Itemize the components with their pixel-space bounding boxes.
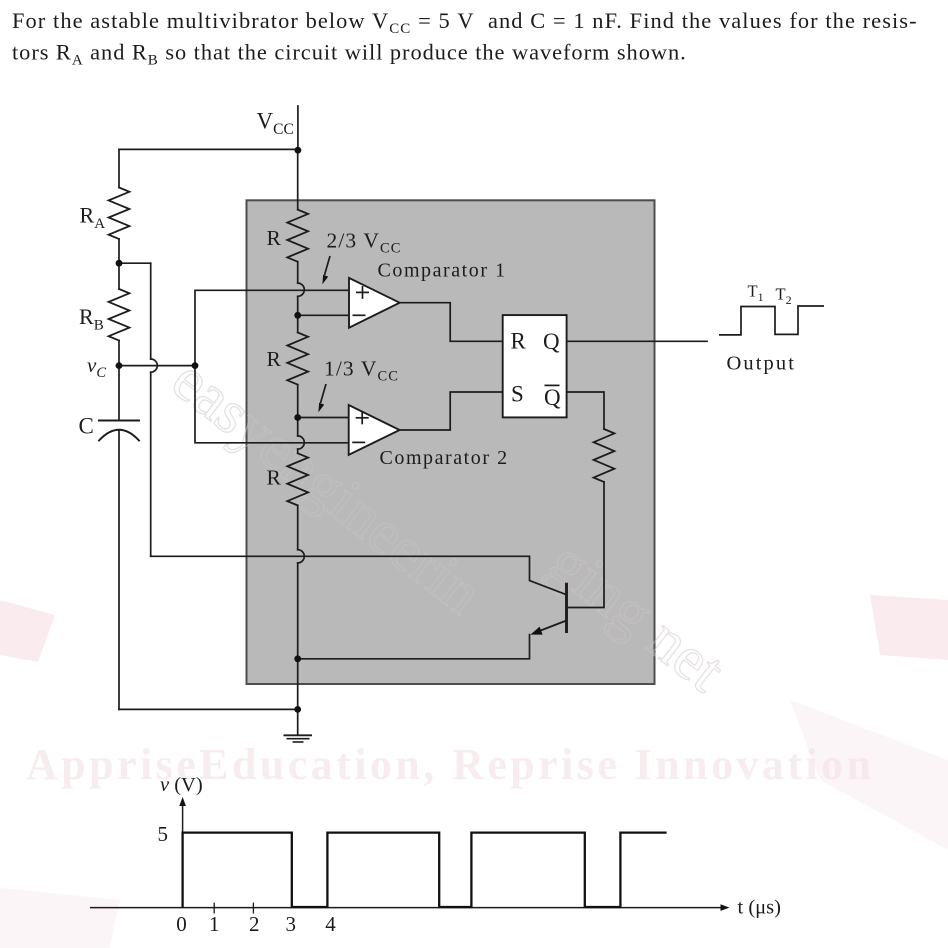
wire discharge column upper	[150, 263, 152, 359]
wire capacitor to bottom rail	[118, 430, 120, 709]
wire RA to node A	[118, 239, 120, 263]
svg-text:Comparator 2: Comparator 2	[380, 447, 509, 469]
svg-text:For the astable multivibrator: For the astable multivibrator below VCC …	[12, 8, 918, 37]
svg-text:3: 3	[285, 912, 296, 936]
wire top horizontal Vcc to RA	[119, 148, 298, 150]
y axis	[182, 802, 184, 908]
svg-text:Output: Output	[727, 353, 797, 375]
wire base resistor to base	[568, 482, 604, 608]
wire node A to discharge column	[119, 262, 151, 264]
tick t=2	[252, 903, 254, 914]
op-amp U1 comparator 1	[349, 278, 400, 328]
svg-text:t (μs): t (μs)	[738, 897, 781, 919]
svg-text:C: C	[79, 413, 94, 438]
capacitor C top plate	[99, 420, 139, 422]
junction vC left	[116, 362, 123, 369]
junction 2/3 Vcc node	[294, 312, 301, 319]
resistor R5 base	[594, 429, 615, 482]
y axis arrowhead	[179, 797, 186, 806]
svg-text:tors RA and RB so that the cir: tors RA and RB so that the circuit will …	[12, 40, 687, 69]
resistor RA	[109, 188, 130, 240]
wire Q output	[567, 340, 707, 342]
junction vC sense	[192, 362, 199, 369]
ground	[284, 735, 313, 742]
svg-text:R: R	[267, 226, 282, 250]
crossover hop2 on divider at comp2 minus wire	[298, 436, 305, 449]
svg-text:T1: T1	[748, 282, 764, 305]
svg-text:Comparator 1: Comparator 1	[378, 260, 507, 282]
svg-text:S: S	[511, 382, 524, 407]
wire Qbar to base resistor	[567, 392, 604, 429]
op-amp U2 comparator 2	[349, 405, 400, 455]
svg-text:VCC: VCC	[257, 108, 294, 138]
tick t=1	[213, 903, 215, 914]
junction ground node	[294, 706, 301, 713]
svg-text:v (V): v (V)	[160, 774, 203, 796]
wire 1/3 node to comp2 plus	[298, 417, 349, 419]
watermark diagonal	[159, 345, 737, 705]
resistor R3	[287, 453, 308, 505]
svg-text:RA: RA	[80, 203, 106, 233]
x axis arrowhead	[721, 904, 730, 911]
arrow to 1/3 node	[321, 384, 327, 403]
svg-text:Q: Q	[544, 385, 561, 410]
ground stem	[297, 709, 299, 734]
waveform square wave	[183, 833, 667, 908]
IC body (gray box)	[247, 200, 655, 684]
wire hop2 to R3	[297, 449, 299, 453]
resistor R2	[287, 333, 308, 385]
x axis	[90, 907, 723, 909]
waveform plot axes	[90, 802, 723, 914]
svg-text:2: 2	[249, 912, 260, 936]
svg-text:0: 0	[176, 912, 187, 936]
wire RB to node vC	[118, 341, 120, 366]
svg-text:R: R	[511, 329, 527, 354]
wire vC horizontal	[119, 365, 195, 367]
junction emitter node	[294, 655, 301, 662]
wire discharge horizontal to collector	[151, 556, 566, 594]
svg-text:R: R	[267, 465, 282, 489]
svg-text:4: 4	[325, 912, 336, 936]
wire 2/3 node to comp1 minus	[298, 314, 349, 316]
resistor RB	[109, 289, 130, 341]
junction Vcc	[295, 147, 302, 154]
wire emitter return	[298, 635, 530, 659]
wire left column upper	[118, 149, 120, 187]
output waveform glyph	[719, 306, 824, 335]
svg-text:5: 5	[158, 822, 169, 846]
crossover hop3 on divider at discharge wire	[298, 550, 305, 563]
wire sense column down	[195, 366, 349, 443]
transistor Q1	[535, 583, 567, 633]
wire sense column up	[195, 290, 349, 365]
Vcc lead	[297, 106, 299, 149]
svg-text:vC: vC	[87, 353, 106, 381]
wire discharge column lower	[150, 372, 152, 556]
wire R2 to 1/3 node	[297, 385, 299, 436]
wire R3 to hop3	[297, 505, 299, 549]
svg-text:T2: T2	[776, 285, 792, 308]
svg-text:Q: Q	[543, 329, 560, 354]
arrow to 2/3 node	[325, 256, 331, 275]
wire hop3 to emitter node	[297, 563, 299, 710]
svg-text:1: 1	[209, 912, 220, 936]
capacitor C bottom plate	[99, 430, 139, 441]
crossover hop1 on divider at comp1 plus wire	[298, 283, 305, 296]
wire bottom rail to ground node	[119, 708, 298, 710]
wire RB top	[118, 263, 120, 289]
wire R1 to hop1	[297, 262, 299, 283]
svg-text:RB: RB	[79, 304, 104, 334]
comparator U2 output wire	[400, 392, 503, 430]
resistor R1	[287, 210, 308, 262]
watermark edge marks	[0, 595, 948, 948]
wire vC node to capacitor	[118, 366, 120, 421]
wire hop1 to 2/3 node	[297, 296, 299, 332]
crossover hop on discharge column at vC wire	[151, 359, 158, 372]
junction node A	[116, 260, 123, 267]
wire center top into box	[297, 149, 299, 209]
flip-flop U3	[503, 315, 567, 417]
comparator U1 output wire	[400, 303, 503, 342]
svg-text:AppriseEducation, Reprise Inno: AppriseEducation, Reprise Innovation	[26, 740, 871, 789]
svg-text:R: R	[267, 347, 282, 371]
junction 1/3 Vcc node	[294, 414, 301, 421]
